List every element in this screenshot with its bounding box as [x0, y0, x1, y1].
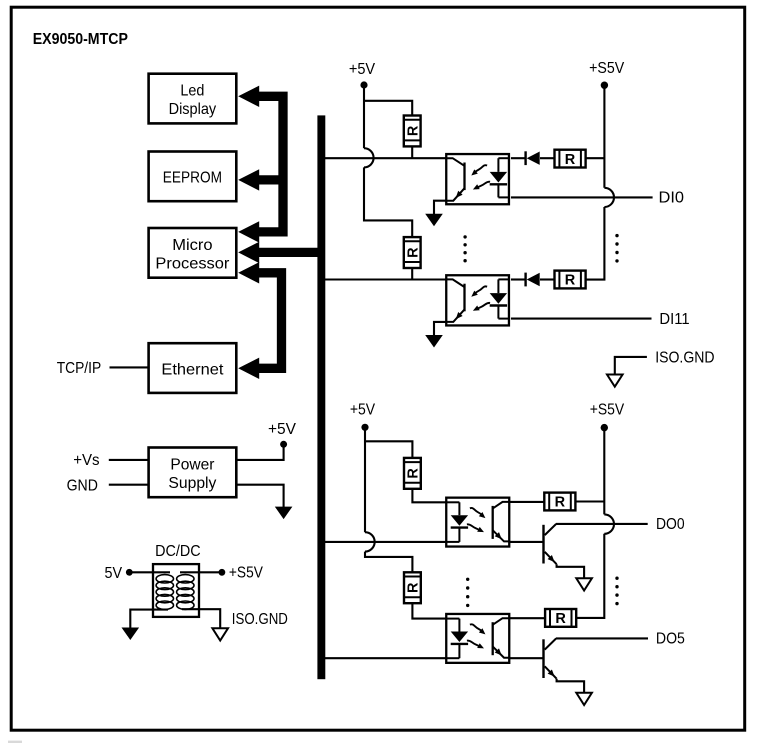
svg-text:R: R: [565, 273, 576, 289]
block Power Supply: [149, 448, 237, 498]
wire DO0 output line: [556, 523, 648, 525]
transistor Q2 (DO5): [542, 639, 544, 678]
wire 5V to DC/DC: [131, 571, 170, 573]
junction dot +5V: [280, 441, 287, 448]
wire DC/DC secondary to ISO.GND: [182, 609, 220, 628]
wire bus to DI11 optocoupler: [325, 278, 446, 280]
wire D1 to R5: [540, 157, 554, 159]
wire bus to DI0 optocoupler: [325, 157, 446, 159]
junction dot +S5V DI: [601, 82, 608, 89]
transformer DC/DC box: [153, 564, 199, 617]
bus wire comb to Led Display, EEPROM, Micro Processor: [259, 96, 283, 232]
svg-text:TCP/IP: TCP/IP: [57, 360, 102, 377]
wire R2 to DI11 input line: [411, 268, 413, 279]
svg-text:DC/DC: DC/DC: [155, 543, 201, 560]
wire +S5V rail to R8: [577, 534, 604, 618]
wire +S5V rail to R6: [586, 207, 604, 280]
resistor R2: [404, 237, 421, 268]
svg-text:+5V: +5V: [350, 402, 376, 419]
wire DI11 output line: [511, 318, 652, 320]
bus arrow into Led Display: [238, 86, 259, 107]
svg-text:R: R: [406, 247, 422, 258]
diode D2: [524, 273, 526, 287]
optocoupler U2 (DI11): [445, 275, 510, 325]
ellipsis between DI channels (left): [463, 235, 466, 238]
svg-text:GND: GND: [67, 477, 98, 494]
junction dot 5V: [126, 569, 133, 576]
svg-text:Led: Led: [180, 83, 204, 100]
svg-text:Ethernet: Ethernet: [161, 361, 224, 378]
wire +5V rail down: [363, 88, 365, 148]
svg-text:5V: 5V: [105, 565, 123, 582]
wire R3 to DO0 opto input: [412, 489, 446, 502]
svg-text:R: R: [406, 468, 422, 479]
bus arrow into Micro Processor (middle): [238, 242, 259, 263]
resistor R1: [404, 116, 421, 147]
block Ethernet: [149, 343, 237, 393]
resistor R7: [544, 493, 575, 511]
wire +5V rail to resistor R3 branch: [365, 441, 412, 458]
wire DI11 opto emitter to ground: [434, 322, 446, 335]
resistor R6: [555, 271, 586, 289]
wire +5V rail down (DO): [364, 430, 366, 532]
svg-text:R: R: [406, 125, 422, 136]
svg-text:ISO.GND: ISO.GND: [655, 349, 714, 366]
ground (filled) of DC/DC primary: [122, 628, 140, 641]
svg-text:+S5V: +S5V: [589, 60, 625, 77]
junction dot +5V DI: [360, 81, 367, 88]
wire +Vs to Power Supply: [109, 459, 148, 461]
svg-text:DI11: DI11: [659, 311, 689, 328]
wire DO0 opto emitter to transistor Q1: [510, 541, 544, 543]
wire R5 to +S5V rail: [586, 157, 604, 159]
wire +S5V rail down (DO): [603, 431, 605, 515]
optocoupler U3 (DO0): [445, 498, 510, 547]
bus wire to Micro Processor (middle): [259, 248, 318, 257]
wire hop over DO0 return line: [365, 532, 375, 551]
wire DI0 opto emitter to ground: [434, 201, 446, 214]
wire DO5 opto emitter to transistor Q2: [510, 657, 544, 659]
wire TCP/IP to Ethernet: [110, 366, 149, 368]
wire hop over DI0 input line: [364, 148, 374, 167]
wire Power Supply to +5V: [238, 447, 284, 460]
wire GND to Power Supply: [109, 484, 148, 486]
bus wire comb to Micro Processor (bottom) and Ethernet: [259, 273, 282, 369]
resistor R5: [555, 150, 586, 168]
wire R1 to DI0 input line: [411, 147, 413, 159]
bus bar: [317, 115, 325, 679]
wire bus to DO0 opto return: [325, 541, 446, 543]
faint cut-off caption mark below frame: [8, 741, 22, 743]
wire DC/DC to +S5V: [180, 571, 221, 573]
svg-text:R: R: [406, 582, 422, 593]
wire R4 to DO5 opto input: [412, 603, 446, 618]
optocoupler U1 (DI0): [445, 154, 510, 204]
wire DI0 output line: [511, 196, 653, 198]
wire Power Supply to ground: [238, 485, 284, 507]
wire +S5V rail down: [603, 88, 605, 187]
svg-text:R: R: [555, 495, 566, 511]
wire DO5 output line: [556, 637, 648, 639]
transformer primary coil: [156, 575, 173, 610]
svg-text:DI0: DI0: [659, 189, 685, 206]
svg-text:DO0: DO0: [656, 516, 685, 533]
optocoupler U4 (DO5): [445, 614, 510, 663]
junction dot +S5V DO: [601, 424, 608, 431]
bus arrow into Ethernet: [238, 358, 259, 379]
wire +5V rail to resistor R1 branch: [364, 101, 412, 115]
wire DO0 opto collector to R7: [510, 501, 544, 503]
svg-text:+S5V: +S5V: [229, 565, 264, 582]
ellipsis between DO channels (left): [466, 578, 469, 581]
svg-text:Power: Power: [170, 457, 215, 474]
svg-text:+S5V: +S5V: [590, 402, 625, 419]
wire to ISO.GND symbol: [615, 357, 647, 375]
block Led Display: [149, 74, 237, 124]
ground (filled) DI0 opto: [425, 214, 443, 227]
svg-text:R: R: [555, 611, 566, 627]
svg-text:DO5: DO5: [656, 631, 685, 648]
bus arrow into EEPROM: [238, 169, 259, 190]
svg-text:R: R: [565, 152, 576, 168]
wire DC/DC primary to ground: [130, 610, 168, 628]
resistor R4: [404, 572, 421, 603]
resistor R8: [545, 609, 576, 627]
wire bus to DO5 opto return: [325, 657, 446, 659]
wire DO5 opto collector to R8: [510, 617, 545, 619]
block Micro Processor: [149, 228, 237, 278]
wire +5V rail to resistor R4 branch: [365, 552, 412, 573]
junction dot +5V DO: [361, 424, 368, 431]
svg-text:Processor: Processor: [155, 255, 230, 272]
svg-text:+Vs: +Vs: [73, 452, 100, 469]
resistor R3: [404, 458, 421, 489]
diode D1: [524, 151, 526, 165]
wire R7 to +S5V rail: [576, 500, 604, 502]
block EEPROM: [149, 152, 237, 202]
transformer secondary coil: [177, 575, 194, 610]
svg-text:EEPROM: EEPROM: [163, 170, 222, 187]
svg-text:Display: Display: [169, 101, 217, 118]
svg-text:+5V: +5V: [349, 61, 376, 78]
bus arrow into Micro Processor (top): [238, 221, 259, 242]
wire hop over DO0 line: [604, 514, 614, 533]
junction dot +S5V: [219, 569, 226, 576]
transistor Q1 (DO0): [542, 525, 544, 564]
ellipsis between DI channels (right): [615, 234, 618, 237]
svg-text:EX9050-MTCP: EX9050-MTCP: [33, 31, 128, 48]
wire D2 to R6: [540, 278, 554, 280]
ground ISO.GND (open): [607, 375, 623, 387]
wire DI0 opto to diode D1: [511, 157, 525, 159]
wire +5V rail to resistor R2 branch: [364, 167, 412, 236]
svg-text:Micro: Micro: [172, 237, 212, 254]
bus arrow into Micro Processor (bottom): [238, 262, 259, 283]
ellipsis between DO channels (right): [615, 577, 618, 580]
wire DI11 opto to diode D2: [511, 278, 525, 280]
ground ISO.GND (open) of DC/DC: [212, 628, 228, 640]
svg-text:ISO.GND: ISO.GND: [232, 611, 288, 628]
ground (filled) of Power Supply: [275, 507, 293, 519]
svg-text:+5V: +5V: [268, 421, 297, 438]
ground (filled) DI11 opto: [425, 335, 443, 348]
wire hop over DI0 line: [604, 188, 614, 207]
svg-text:Supply: Supply: [168, 475, 216, 492]
